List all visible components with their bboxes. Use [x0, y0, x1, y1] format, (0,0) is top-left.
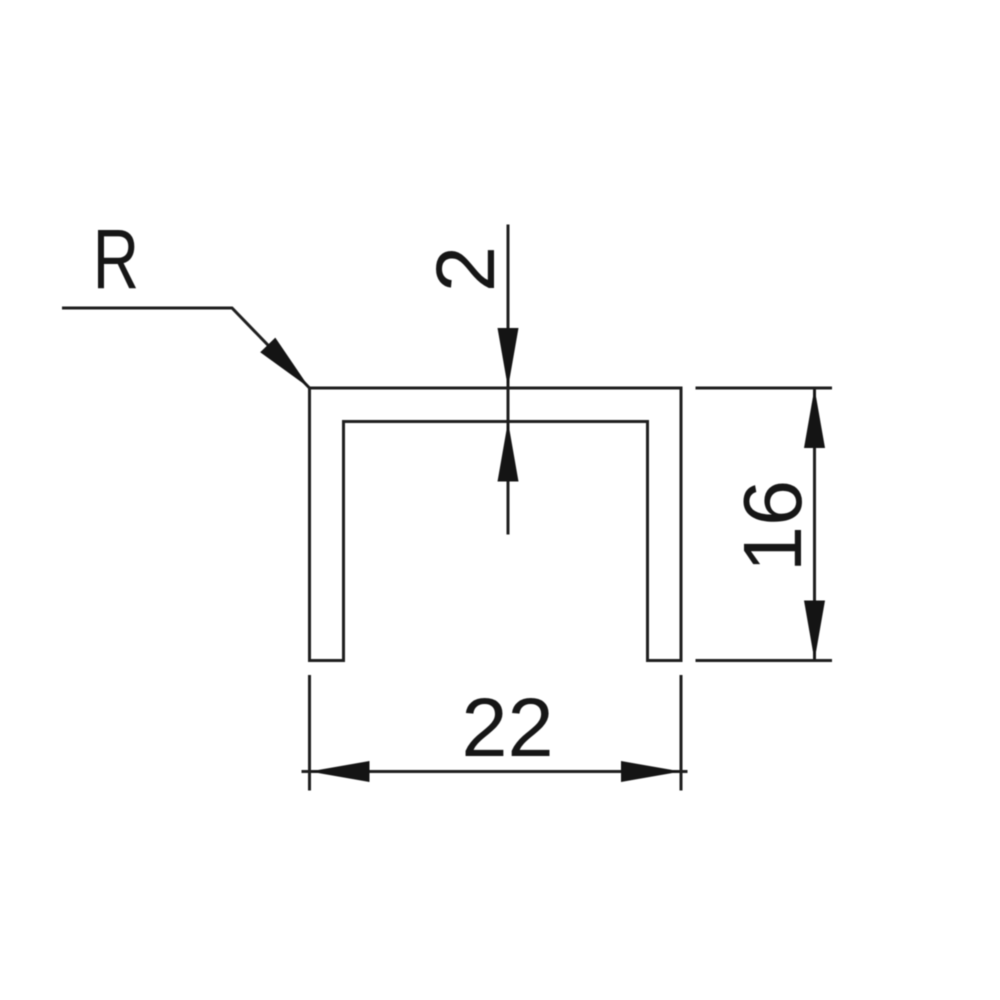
svg-text:16: 16	[726, 480, 819, 572]
svg-text:2: 2	[419, 246, 512, 292]
svg-text:22: 22	[461, 681, 553, 774]
svg-text:R: R	[93, 212, 139, 306]
